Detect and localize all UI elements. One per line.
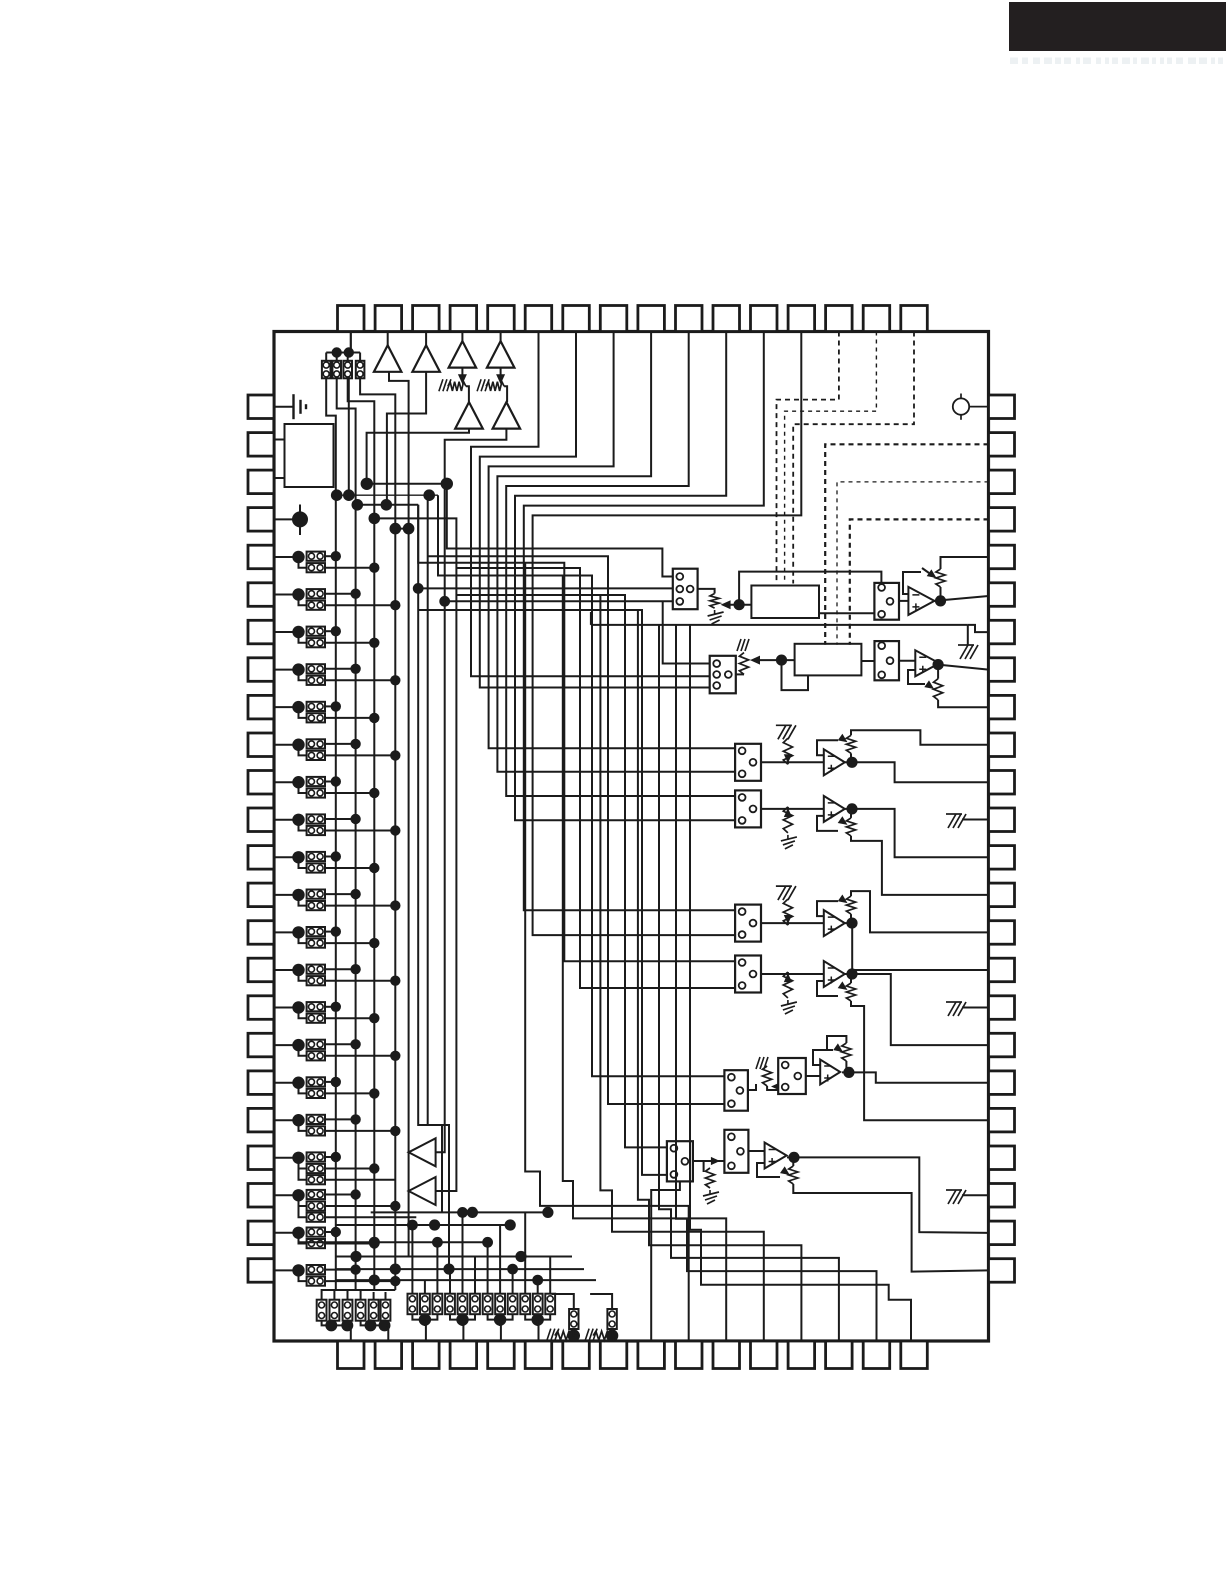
bottom pin 10 — [676, 1341, 703, 1369]
ladder junction pin 20 — [292, 1114, 304, 1126]
ladder resistor upper pin 14 — [307, 890, 325, 899]
CH8 out to right pin 23 — [787, 1157, 989, 1233]
wire top pin 9 fan to CH3 in2 — [497, 332, 735, 772]
bottom row junction 9 — [443, 1264, 454, 1275]
bottom pack P2-8 — [495, 1294, 505, 1315]
CH4 out dot — [846, 803, 857, 814]
ladder resistor upper pin 12 — [307, 814, 325, 823]
CH6 in1 feed from jog H505 — [418, 505, 735, 961]
ladder resistor lower pin 11 — [307, 788, 325, 797]
bottom pack P1-5 — [369, 1300, 379, 1321]
ladder resistor lower pin 24 — [307, 1277, 325, 1286]
right pin 23 — [989, 1221, 1015, 1245]
CH7 series resistor — [763, 1066, 772, 1086]
ladder drop pin 9 — [299, 707, 307, 718]
bottom pack P2-10 — [520, 1294, 530, 1315]
pack row2 mid stub 3 — [499, 1314, 501, 1319]
ladder junction pin 22 — [292, 1189, 304, 1201]
bottom pack P2-5 — [458, 1294, 468, 1315]
pack feed stub 5 — [462, 1212, 464, 1293]
ladder resistor lower pin 22 — [307, 1201, 325, 1210]
right pin 21 — [989, 1146, 1015, 1170]
ladder resistor lower pin 23 — [307, 1239, 325, 1248]
bus 2 into pack — [334, 1290, 355, 1300]
ladder drop pin 16 — [299, 970, 307, 981]
wire left pin 16 to ladder — [274, 969, 298, 971]
ladder junction pin 23 — [292, 1227, 304, 1239]
ladder resistor lower pin 14 — [307, 901, 325, 910]
ladder lower out pin 24 — [325, 1280, 395, 1282]
ladder drop pin 20 — [299, 1120, 307, 1131]
right pin 2 — [989, 433, 1015, 457]
ladder resistor upper pin 17 — [307, 1002, 325, 1011]
pack feed stub 10 — [524, 1212, 526, 1293]
ladder resistor third pin 22 — [307, 1213, 325, 1222]
CH2 pot arrow — [924, 680, 934, 689]
wire left pin 19 to ladder — [274, 1082, 298, 1084]
ladder lower out pin 10 — [325, 754, 395, 756]
ladder junction pin 19 — [292, 1077, 304, 1089]
wire left pin 2 to block — [274, 439, 285, 441]
P3-1 node dot — [568, 1329, 580, 1341]
jog H528 dot B — [403, 523, 415, 535]
CH5 pot out — [851, 891, 989, 932]
pack row1 dot D — [379, 1319, 391, 1331]
CH7 pot arrow — [833, 1043, 843, 1052]
CH6 out dot — [846, 968, 857, 979]
ladder resistor upper pin 10 — [307, 739, 325, 748]
bottom pack P2-7 — [483, 1294, 493, 1315]
varistor out VR1 — [466, 386, 469, 402]
CH3 gain pot — [846, 735, 855, 753]
ladder resistor lower pin 7 — [307, 638, 325, 647]
ladder upper bus dot pin 10 — [350, 739, 360, 749]
right pin 7 — [989, 620, 1015, 644]
wire top pin 3 to buffer — [425, 332, 427, 346]
left pin 22 — [248, 1184, 274, 1208]
P3-1 series resistor — [555, 1331, 572, 1340]
top pin 3 — [413, 306, 440, 332]
CH1 in1 branch — [418, 587, 673, 589]
CH1 feedback loop — [903, 572, 921, 594]
CH5 res to amp — [761, 923, 788, 925]
right pin 4 — [989, 508, 1015, 531]
pack row1 join D — [373, 1321, 375, 1326]
ladder lower bus dot pin 13 — [369, 863, 379, 873]
CH5 feedback — [817, 901, 838, 916]
CH2 arrow tail — [758, 659, 795, 661]
ladder extra into pack 5 — [373, 1292, 375, 1300]
jog H505 dot B — [381, 499, 393, 511]
resistor pack RP3 — [343, 361, 352, 379]
ladder junction pin 24 — [292, 1264, 304, 1276]
CH7 in1 feed — [438, 495, 724, 1076]
CH7 amp in — [806, 1075, 820, 1077]
ladder upper out pin 17 — [325, 1006, 336, 1008]
battery symbol plates — [294, 394, 307, 419]
right pin 5 — [989, 545, 1015, 569]
ladder upper out pin 21 — [325, 1156, 336, 1158]
ladder drop pin 10 — [299, 745, 307, 756]
pack feed stub 6 — [474, 1257, 476, 1294]
ladder junction pin 14 — [292, 889, 304, 901]
ladder lower bus dot pin 10 — [390, 750, 400, 760]
ladder lower bus dot pin 23 — [369, 1238, 379, 1248]
ladder upper bus dot pin 8 — [350, 664, 360, 674]
left pin 6 — [248, 583, 274, 607]
ladder lower bus dot pin 11 — [369, 788, 379, 798]
dashed bus right pin 4 to DAC2 — [850, 519, 989, 644]
pack 3 top stub — [347, 353, 349, 362]
ladder lower out pin 18 — [325, 1055, 395, 1057]
CH6 out to pin — [845, 974, 989, 1045]
op-amp U3 — [824, 749, 845, 775]
right pin 18 — [989, 1033, 1015, 1057]
CH2 pot to right pin 9 — [938, 700, 988, 707]
CH4 pot arrow — [838, 816, 848, 825]
CH6 res to amp — [761, 972, 788, 974]
ladder resistor lower pin 20 — [307, 1126, 325, 1135]
CH3 amp input wire — [788, 761, 824, 763]
CH7 gain pot — [842, 1043, 851, 1061]
ladder junction pin 16 — [292, 964, 304, 976]
ladder lower bus dot pin 6 — [390, 600, 400, 610]
CH5 series resistor — [783, 899, 792, 925]
top pin 16 — [901, 306, 928, 332]
ladder drop pin 21 — [299, 1158, 307, 1169]
CH1 pot to right pin 5 — [941, 557, 989, 569]
ladder upper bus dot pin 12 — [350, 814, 360, 824]
left pin 13 — [248, 846, 274, 870]
to bottom pin 7 — [574, 1329, 576, 1341]
ground wire pin 22 — [962, 1194, 989, 1196]
bottom pack P1-3 — [343, 1300, 353, 1321]
ladder upper out pin 9 — [325, 705, 336, 707]
wire top pin 13 fan to CH5 in2 — [533, 332, 802, 936]
wire left pin 5 to ladder — [274, 556, 298, 558]
left pin 24 — [248, 1259, 274, 1283]
CH1 in1 junction — [413, 583, 424, 594]
jog H495 thin rail — [336, 494, 438, 496]
top pin 11 — [713, 306, 740, 332]
bottom pack P1-1 — [317, 1300, 327, 1321]
CH8 pot arrow — [780, 1166, 790, 1175]
ladder upper out pin 6 — [325, 593, 356, 595]
pack row1 dot A — [325, 1319, 337, 1331]
ladder upper out pin 22 — [325, 1194, 356, 1196]
wire top pin 6 fan to CH2 in1 — [471, 332, 710, 677]
ladder resistor upper pin 7 — [307, 627, 325, 636]
ladder resistor upper pin 18 — [307, 1040, 325, 1049]
bottom feed row 4 — [336, 1256, 572, 1258]
wire left pin 4 to node — [274, 518, 300, 520]
CH1 pot arrow — [927, 569, 937, 578]
ladder junction pin 21 — [292, 1152, 304, 1164]
ground to right pin 7 — [968, 625, 989, 632]
ladder upper out pin 8 — [325, 668, 356, 670]
ladder third out pin 22 — [325, 1216, 416, 1218]
CH3 res arrow — [784, 754, 792, 763]
wire left pin 20 to ladder — [274, 1119, 298, 1121]
CH1 pot bottom join — [940, 587, 942, 601]
CH7 out to right pin 19 — [842, 1072, 989, 1082]
left pin 4 — [248, 508, 274, 531]
dashed bus from top pin 15 — [785, 332, 877, 584]
ladder resistor upper pin 21 — [307, 1152, 325, 1161]
ladder drop2 pin 21 — [299, 1169, 307, 1180]
pack row2 dot 3 — [494, 1313, 506, 1325]
top pin 12 — [751, 306, 778, 332]
left pin 1 — [248, 395, 274, 419]
CH3 out to pin — [845, 762, 989, 782]
ladder lower bus dot pin 19 — [369, 1088, 379, 1098]
ladder upper bus dot pin 18 — [350, 1039, 360, 1049]
ladder upper out pin 15 — [325, 931, 336, 933]
DAC2 bottom loop — [782, 660, 809, 690]
jog H518 to buffer B2 — [374, 518, 456, 1191]
CH4 pot out — [851, 836, 989, 895]
ladder upper bus dot pin 21 — [331, 1152, 341, 1162]
ladder upper bus dot pin 17 — [331, 1002, 341, 1012]
CH6 feedback — [817, 981, 838, 996]
ladder lower bus dot pin 24 — [390, 1276, 400, 1286]
CH6 pot drop — [850, 974, 852, 983]
ladder upper bus dot pin 19 — [331, 1077, 341, 1087]
CH1 in2 junction — [439, 596, 450, 607]
CH7 pot top to feedback — [827, 1036, 846, 1050]
ladder third out pin 21 — [325, 1179, 395, 1181]
ladder lower out pin 6 — [325, 604, 395, 606]
bottom row junction 10 — [369, 1275, 380, 1286]
top pin 9 — [638, 306, 665, 332]
varistor out VR2 — [504, 386, 507, 402]
CH3 pot out — [851, 730, 989, 744]
CH1 amp in — [899, 600, 908, 602]
CH7 out dot — [843, 1067, 854, 1078]
CH5 out to pin — [845, 923, 989, 970]
ladder upper bus dot pin 24 — [350, 1264, 360, 1274]
ladder lower bus dot pin 15 — [369, 938, 379, 948]
varistor arrow into VR2 — [496, 368, 505, 385]
P3-2 top feed — [590, 1294, 612, 1309]
ladder junction pin 9 — [292, 701, 304, 713]
ladder resistor upper pin 9 — [307, 702, 325, 711]
ladder lower out pin 8 — [325, 679, 395, 681]
left pin 12 — [248, 808, 274, 832]
CH2 amp in — [899, 660, 915, 662]
bottom feed row 3 — [299, 1241, 485, 1243]
CH2 box out to shunt — [736, 673, 744, 675]
jog H495 dot A — [331, 489, 343, 501]
analog ground pin 12 — [946, 814, 966, 828]
wire top pin 2 to buffer — [387, 332, 390, 346]
wire left pin 10 to ladder — [274, 744, 298, 746]
ladder junction pin 18 — [292, 1039, 304, 1051]
pack 4 top stub — [359, 353, 361, 362]
top pin 5 — [488, 306, 515, 332]
ladder drop pin 8 — [299, 670, 307, 681]
faint caption text under title block — [1010, 58, 1223, 65]
wire left pin 22 to ladder — [274, 1194, 298, 1196]
left pin 17 — [248, 996, 274, 1020]
bottom pack P1-6 — [381, 1300, 391, 1321]
CH7 resistor ticks — [756, 1057, 768, 1069]
to bottom pin 1 — [348, 1325, 351, 1341]
bottom pack P2-4 — [445, 1294, 455, 1315]
pack feed dot 11 — [532, 1275, 543, 1286]
jog H528 link — [395, 529, 408, 1257]
bus 3 into pack — [348, 1290, 375, 1300]
ladder lower out pin 14 — [325, 905, 395, 907]
CH3 feedback — [817, 740, 838, 755]
CH6 resistor ground — [781, 1000, 797, 1014]
jog H518 dot — [369, 513, 381, 525]
varistor resistor VR1 — [448, 382, 466, 391]
bottom stair wire 5 — [659, 625, 839, 1341]
wire top pin 10 fan to CH4 in1 — [506, 332, 735, 797]
varistor ticks VR2 — [477, 379, 489, 391]
pack row2 dot 4 — [532, 1313, 544, 1325]
buffer amp B1 (left) — [409, 1138, 436, 1166]
pack 2 top stub — [336, 353, 338, 362]
ladder resistor lower pin 10 — [307, 751, 325, 760]
top pin 2 — [375, 306, 402, 332]
ladder drop2 pin 22 — [299, 1206, 307, 1217]
input selector CH6 — [735, 956, 761, 993]
wire top pin 8 fan to CH3 in1 — [489, 332, 735, 749]
bottom pack P1-2 — [330, 1300, 340, 1321]
right pin 24 — [989, 1259, 1015, 1283]
CH5 resistor ground — [776, 886, 796, 900]
bottom pack P2-11 — [533, 1294, 543, 1315]
buffer amp A5 — [455, 402, 483, 429]
CH1 trim arrow — [721, 600, 731, 609]
pack row2 join 2 — [450, 1314, 475, 1319]
left pin 5 — [248, 545, 274, 569]
input selector CH2 — [710, 656, 736, 694]
title block (solid black) — [1009, 2, 1226, 51]
ladder junction pin 8 — [292, 663, 304, 675]
right pin 8 — [989, 658, 1015, 682]
CH2 node dot — [776, 655, 787, 666]
P3-2 node dot — [606, 1329, 618, 1341]
CH6 pot out — [851, 1001, 989, 1120]
right pin 14 — [989, 883, 1015, 907]
ladder drop pin 22 — [299, 1195, 307, 1206]
pack row2 join 1 — [412, 1314, 437, 1319]
pack row2 dot 2 — [456, 1313, 468, 1325]
pack row1 join C — [361, 1321, 386, 1326]
wire left pin 17 to ladder — [274, 1007, 298, 1009]
right pin 10 — [989, 733, 1015, 757]
pack feed dot 7 — [482, 1237, 493, 1248]
pack feed stub 8 — [499, 1225, 501, 1294]
CH1 pot arrow feed — [922, 568, 929, 573]
P3-1 resistor ticks — [547, 1329, 559, 1341]
CH8 res arrow — [711, 1157, 720, 1165]
top pin 10 — [676, 306, 703, 332]
ladder upper bus dot pin 5 — [331, 551, 341, 561]
ground wire pin 17 — [962, 1007, 989, 1009]
CH2 out to right pin 8 — [938, 665, 988, 670]
CH8 resistor ground — [703, 1190, 719, 1204]
pack feed stub 11 — [537, 1280, 539, 1294]
CH8 box1 out — [693, 1161, 704, 1172]
bottom pin 13 — [788, 1341, 815, 1369]
bottom row junction 1 — [467, 1207, 478, 1218]
CH6 in2 feed — [456, 568, 735, 988]
left pin 18 — [248, 1033, 274, 1057]
CH5 gain pot — [846, 896, 855, 914]
pack row1 dot C — [365, 1319, 377, 1331]
right pin 16 — [989, 958, 1015, 982]
op-amp U6 — [824, 961, 845, 987]
dashed bus right pin 3 to DAC2 — [837, 482, 989, 645]
ladder lower bus dot pin 16 — [390, 976, 400, 986]
CH1 shunt resistor — [710, 594, 719, 609]
pack feed stub 2 — [424, 1280, 426, 1294]
CH8 in1 feed — [456, 595, 667, 1147]
left pin 20 — [248, 1108, 274, 1132]
CH8 in2 feed — [418, 610, 667, 1175]
bottom row junction 6 — [350, 1251, 361, 1262]
ladder drop pin 5 — [299, 557, 307, 568]
ladder resistor upper pin 15 — [307, 927, 325, 936]
pack tie dot B — [344, 347, 354, 357]
pack row2 mid stub 2 — [462, 1314, 464, 1319]
ladder drop pin 6 — [299, 595, 307, 606]
CH8 pot to right pin 24 — [793, 1184, 988, 1272]
right pin 15 — [989, 921, 1015, 945]
ladder upper bus dot pin 16 — [350, 964, 360, 974]
bottom pin 9 — [638, 1341, 665, 1369]
ladder lower out pin 5 — [325, 567, 374, 569]
ladder resistor lower pin 18 — [307, 1051, 325, 1060]
analog ground pin 17 — [946, 1002, 966, 1016]
right pin 9 — [989, 695, 1015, 719]
bus 4 into pack — [361, 1290, 396, 1300]
CH4 feedback — [817, 816, 838, 831]
ground wire pin 12 — [962, 819, 989, 821]
wire left pin 1 to battery — [274, 406, 294, 408]
ladder resistor upper pin 13 — [307, 852, 325, 861]
pack row2 dot 1 — [419, 1313, 431, 1325]
right pin 17 — [989, 996, 1015, 1020]
rail from pack tie down — [348, 377, 350, 495]
IC body outline — [274, 332, 989, 1342]
ladder upper bus dot pin 15 — [331, 926, 341, 936]
ladder resistor lower pin 5 — [307, 563, 325, 572]
top pin 7 — [563, 306, 590, 332]
selector 2 CH8 — [724, 1130, 748, 1173]
wire top pin 5 to buffer — [500, 332, 502, 342]
bottom row junction 4 — [505, 1219, 516, 1230]
ladder lower bus dot pin 22 — [390, 1201, 400, 1211]
CH3 pot drop — [850, 753, 852, 762]
buffer amp A3 — [449, 341, 477, 368]
analog ground pin 22 — [946, 1190, 966, 1204]
trim network CH1 — [874, 583, 899, 620]
buffer A6 output to CV2 rail — [436, 429, 507, 1153]
CH2 pot top join — [937, 665, 939, 679]
pack feed dot 3 — [432, 1237, 443, 1248]
resistor pack RP2 — [332, 361, 341, 379]
top pin 14 — [826, 306, 853, 332]
pack 2 bottom to bus 2 — [337, 378, 356, 1290]
ladder lower bus dot pin 8 — [390, 675, 400, 685]
jog H483 to CH1 input — [367, 484, 673, 577]
CH4 res arrow — [784, 808, 792, 817]
